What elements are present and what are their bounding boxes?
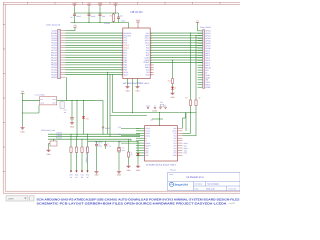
wire serial rail 1: [48, 133, 140, 135]
svg-text:GND: GND: [117, 173, 122, 176]
svg-text:R16: R16: [168, 79, 171, 82]
ground GND (D3): [172, 92, 174, 94]
wire X1 OUT rail: [57, 99, 95, 101]
svg-text:GND: GND: [171, 96, 176, 99]
svg-text:ATMEGA328P-AU: ATMEGA328P-AU: [123, 82, 150, 85]
resistor R3: [76, 137, 78, 146]
wire serial rail 3: [48, 138, 131, 140]
wire crystal rail: [88, 140, 131, 142]
svg-text:FB1: FB1: [110, 15, 113, 18]
svg-text:C5: C5: [70, 16, 72, 19]
wire drop c: [107, 72, 109, 134]
capacitor C7 4.7uF: [105, 141, 107, 144]
zoom widget: [6, 196, 28, 201]
logo BeagleUSA: [170, 182, 174, 186]
wire U4 right risers: [182, 118, 184, 128]
oscillator X1 body: [40, 97, 57, 105]
ground GND (U8 pin 21): [127, 79, 129, 85]
svg-text:VDD33: VDD33: [104, 22, 110, 25]
svg-text:en.pdf: en.pdf: [229, 202, 235, 205]
svg-text:100nF: 100nF: [76, 15, 81, 18]
led D3: [172, 85, 174, 87]
wire drop e: [112, 75, 114, 113]
svg-text:P2/TXO: P2/TXO: [56, 137, 63, 140]
wire TXLED net: [76, 100, 78, 136]
svg-text:ATMEGA16U2-MU: ATMEGA16U2-MU: [146, 163, 177, 166]
wire serial rail 2: [48, 136, 140, 138]
svg-text:X1 14.7456M: X1 14.7456M: [35, 94, 46, 97]
svg-text:U4: U4: [150, 118, 152, 121]
net label RESET: [102, 127, 104, 129]
wire top rail: [75, 12, 119, 14]
diode D4: [137, 141, 139, 151]
resistor R8 22R: [195, 99, 197, 100]
resistor R6 1M: [128, 139, 130, 151]
svg-text:Drawn By:: Drawn By:: [228, 187, 237, 190]
ic U4 body: [145, 126, 178, 161]
ground GND (X1): [38, 105, 40, 113]
svg-text:GND: GND: [126, 89, 131, 92]
power stub J2 pin1: [197, 23, 199, 31]
svg-text:VUSB: VUSB: [152, 110, 158, 113]
svg-text:SERIAL/BLK_DWL: SERIAL/BLK_DWL: [41, 129, 55, 132]
crystal Y1 16MHz: [118, 141, 120, 147]
net port (X1 out): [60, 102, 64, 109]
svg-text:GND: GND: [70, 126, 75, 129]
svg-text:Your Company: Your Company: [207, 182, 219, 185]
svg-text:10uF: 10uF: [102, 15, 106, 18]
svg-text:RESET: RESET: [51, 76, 58, 79]
ground GND (Y1): [118, 170, 120, 172]
wire bus U8 to J2 (13 nets): [150, 32, 202, 34]
svg-text:FILENAME.SCH: FILENAME.SCH: [187, 176, 204, 179]
resistor R4: [81, 139, 83, 146]
svg-text:GND: GND: [127, 169, 132, 172]
svg-text:GND: GND: [136, 169, 141, 172]
wire rail stub: [110, 115, 147, 117]
wire VDD to U8: [128, 23, 130, 29]
ground GND (R6): [128, 165, 130, 167]
led LED1 (power): [83, 100, 85, 116]
ferrite bead FB1: [113, 13, 115, 14]
ground GND (J3): [49, 143, 51, 145]
connector J2 pin stubs: [198, 30, 203, 32]
svg-text:GND: GND: [47, 153, 52, 156]
connector J1 pin stubs: [61, 30, 66, 32]
resistor R7 22R: [190, 99, 192, 100]
net ports below resistor row: [70, 154, 72, 171]
title block: [168, 172, 240, 190]
connector J2 body: [203, 30, 205, 88]
svg-text:1k: 1k: [174, 87, 176, 90]
ic U4 right pin stubs: [178, 127, 183, 129]
resistor R16 1k: [172, 78, 174, 79]
ic U4 left pin stubs: [136, 127, 145, 129]
wire net to R16: [172, 60, 174, 77]
wire USB D+ drop: [190, 33, 192, 99]
svg-text:ADC7: ADC7: [124, 73, 129, 76]
resistor R5: [87, 134, 89, 146]
capacitor C1 100nF: [74, 7, 76, 14]
capacitor C6 22pF: [96, 141, 98, 144]
svg-text:2019-11-07: 2019-11-07: [206, 187, 215, 190]
capacitor C2 100nF: [88, 7, 90, 14]
svg-text:Date:: Date:: [195, 187, 200, 190]
ground GND (U8 pin 5): [137, 79, 139, 85]
resistor R2: [70, 134, 72, 146]
svg-text:BeagleUSA: BeagleUSA: [175, 184, 189, 187]
svg-text:Conn_01x24: Conn_01x24: [200, 26, 211, 29]
svg-text:GND: GND: [136, 89, 141, 92]
ground GND (C6): [96, 170, 98, 172]
wire USB D- drop: [195, 36, 197, 100]
wire bus J1 to U8 (18 nets): [66, 32, 123, 34]
svg-text:D-: D-: [199, 96, 201, 99]
svg-text:100nF: 100nF: [91, 15, 96, 18]
ground GND (D4): [137, 165, 139, 167]
wire X1 VCC: [23, 99, 40, 101]
svg-text:GND: GND: [95, 173, 100, 176]
svg-text:AVCC: AVCC: [121, 19, 126, 22]
wire U8 GND net down: [132, 79, 134, 113]
svg-text:GND: GND: [21, 131, 26, 134]
svg-text:U8 IC-04: U8 IC-04: [131, 10, 143, 14]
jumper J3: [53, 139, 55, 141]
ic U8 right side stubs: [150, 64, 154, 66]
svg-text:Company:: Company:: [195, 182, 204, 185]
wire VUSB rail: [113, 112, 197, 114]
capacitor C4 104: [118, 13, 120, 17]
capacitor C3 10uF: [99, 7, 101, 14]
ic U8 body: [123, 28, 150, 79]
wire U4 left nets: [121, 127, 140, 129]
wire drop d: [109, 75, 111, 137]
wire EXT drop: [95, 99, 103, 101]
svg-text:100%: 100%: [8, 198, 14, 201]
svg-text:Conn_01x22_M: Conn_01x22_M: [46, 24, 60, 27]
wire U4 VCC: [159, 113, 161, 126]
wire J1 drop a: [66, 77, 68, 100]
wire bottom rail: [71, 22, 129, 24]
svg-text:Sheet_1: Sheet_1: [170, 168, 176, 171]
connector J1 body: [58, 29, 61, 78]
svg-text:SCHEMATIC-PCB-LAYOUT GERBER+BO: SCHEMATIC-PCB-LAYOUT GERBER+BOM FILES OP…: [37, 201, 228, 205]
svg-text:IOREF: IOREF: [205, 86, 211, 89]
ground GND (C10): [71, 121, 73, 123]
